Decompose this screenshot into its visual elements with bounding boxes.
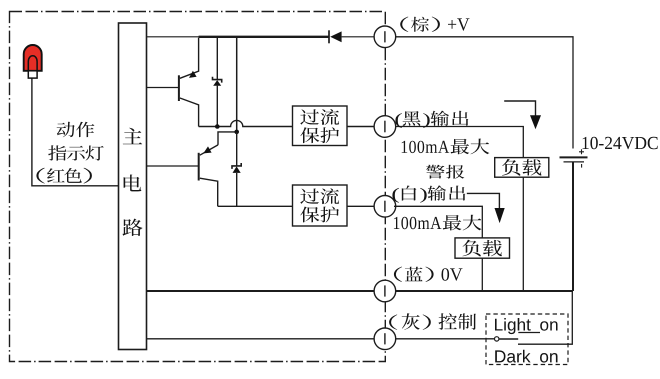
current direction arrow (black output load) [504, 101, 541, 129]
label （蓝）0V [394, 267, 463, 282]
ocp1 text line2 保护 [300, 127, 339, 143]
main-box char 路 [123, 219, 143, 236]
label 10-24VDC [583, 137, 658, 150]
load1 text 负载 [502, 159, 541, 176]
junction dot (+V feed / Q2 emitter) [234, 130, 239, 135]
main-box char 主 [123, 128, 142, 145]
label 100mA最大 (white) [394, 215, 482, 231]
+V feed wire to Q2 emitter [236, 37, 238, 132]
label （灰）控制 [389, 313, 476, 330]
load box 负载 (white output) [455, 238, 510, 258]
main circuit box 主电路 [119, 23, 147, 350]
label (黑)输出 [395, 111, 468, 128]
wire: load2 to 0V rail [481, 258, 483, 291]
reverse-protection diode at +V (points left) [329, 30, 375, 43]
overcurrent protection box 过流保护 (OCP2) [293, 185, 348, 226]
terminal circle (蓝)0V [374, 280, 396, 302]
label （棕）+V [400, 17, 469, 32]
wire: +V terminal to battery positive [395, 37, 573, 149]
wire: Q2 collector to OCP2 [218, 205, 293, 207]
switch label Light on [495, 318, 558, 334]
wire: battery negative down to 0V rail (bold) [572, 162, 574, 291]
load box 负载 (black output) [495, 158, 549, 178]
transistor Q2 base wire [147, 165, 199, 167]
terminal circle (棕)+V [374, 26, 396, 48]
wire: black output to load1 [395, 127, 523, 158]
LED indicator lamp (red) [24, 45, 42, 78]
+V top rail (bold segment) [199, 36, 329, 38]
Light on contact [518, 332, 540, 334]
mode switch pivot (open circle) [495, 337, 499, 341]
ocp1 text line1 过流 [300, 109, 339, 125]
diode D2 (clamp on white output) [232, 132, 241, 206]
wire: LED cathode down and to main circuit [32, 78, 119, 186]
ocp2 text line2 保护 [300, 207, 339, 223]
control wire (灰) from main box to terminal [147, 338, 375, 340]
wire: Q1 collector to OCP1 with hop over +V feed [199, 120, 293, 126]
wire: OCP2 to white output terminal [347, 205, 374, 207]
current direction arrow (white output load) [467, 193, 505, 223]
load2 text 负载 [462, 240, 501, 257]
mode selection dashed box [486, 314, 568, 365]
control wire from terminal to mode switch [395, 338, 494, 340]
+V top rail (thin segment from main box) [147, 36, 200, 38]
wire: load1 to 0V rail [522, 177, 524, 291]
label 100mA最大 (black) [402, 139, 490, 155]
label-line2 指示灯 [48, 145, 104, 160]
main-box char 电 [124, 175, 142, 192]
transistor Q2 (PNP) [199, 145, 218, 206]
overcurrent protection box 过流保护 (OCP1) [293, 106, 348, 146]
terminal circle (白)output [374, 196, 396, 218]
transistor Q1 (PNP) [179, 38, 199, 127]
label-line1 动作 [57, 122, 95, 137]
wire: white output to load2 [394, 206, 482, 238]
switch label Dark on [495, 350, 557, 363]
wire: Q2 emitter to +V feed [218, 132, 237, 145]
label (白)输出 [392, 185, 465, 202]
label 警报 [426, 165, 464, 179]
transistor Q1 base wire [147, 87, 179, 89]
terminal circle (黑)output [374, 116, 396, 138]
Dark on contact wired to 0V [518, 292, 572, 344]
label-line3 （红色） [36, 168, 91, 184]
mode switch lever [499, 338, 518, 340]
ocp2 text line1 过流 [300, 188, 339, 204]
battery 10-24VDC [560, 149, 588, 167]
junction dot (D1 anode on collector wire) [215, 124, 220, 129]
0V rail (bold) [147, 290, 574, 292]
wire: OCP1 to black output terminal [347, 126, 375, 128]
diode D1 (clamp, collector to +V) [213, 37, 222, 127]
terminal circle (灰)control [374, 328, 396, 350]
outer dashed enclosure (sensor body) [10, 12, 386, 362]
